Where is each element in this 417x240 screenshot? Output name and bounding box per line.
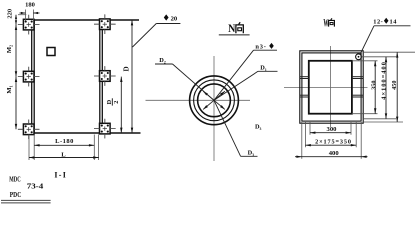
- svg-text:MDC: MDC: [9, 175, 20, 184]
- dimension 450 right: [363, 52, 415, 122]
- svg-text:2×175=350: 2×175=350: [315, 138, 352, 145]
- dimension 2x175=350 bottom: [305, 122, 356, 147]
- inner circle D1: [198, 84, 231, 117]
- svg-text:M₂: M₂: [6, 45, 13, 53]
- svg-text:220: 220: [7, 9, 14, 19]
- dimension 220: [7, 9, 27, 25]
- svg-text:D₂: D₂: [159, 57, 166, 64]
- svg-text:12-: 12-: [373, 19, 383, 26]
- right view centerline horizontal: [284, 87, 368, 89]
- bolt flange square top-left: [18, 15, 40, 35]
- label D2 with leader: [155, 57, 214, 101]
- svg-text:N: N: [228, 21, 235, 35]
- svg-text:D: D: [123, 66, 131, 71]
- dimension D: [123, 20, 134, 133]
- svg-text:180: 180: [25, 1, 35, 8]
- callout 12-phi14 with leader: [360, 18, 411, 55]
- svg-text:300: 300: [327, 126, 338, 133]
- svg-text:D₃: D₃: [255, 123, 262, 130]
- svg-text:D₁: D₁: [260, 64, 267, 71]
- svg-text:2: 2: [113, 101, 120, 104]
- svg-text:350: 350: [370, 80, 377, 89]
- svg-text:M₁: M₁: [6, 85, 13, 93]
- outer circle D3: [190, 76, 239, 125]
- dimension 4x100=400 right: [362, 57, 397, 119]
- bolt flange square bottom-left: [18, 120, 40, 140]
- bolt flange square mid-right: [94, 66, 116, 86]
- bolt flange square mid-left: [18, 67, 40, 87]
- circle centerline horizontal: [146, 99, 251, 101]
- label n3-phi with leader: [214, 43, 277, 100]
- svg-text:14: 14: [390, 19, 398, 26]
- svg-text:L-180: L-180: [55, 138, 74, 145]
- dimension 180: [20, 1, 40, 20]
- bolt flange square top-right: [94, 14, 116, 34]
- svg-text:n3-: n3-: [255, 43, 266, 50]
- dimension 400 bottom: [295, 122, 368, 159]
- dimension 350 right: [352, 61, 378, 114]
- dimension D/2: [106, 77, 123, 133]
- circle centerline vertical: [213, 56, 215, 161]
- svg-text:I-I: I-I: [54, 171, 67, 180]
- svg-text:400: 400: [329, 150, 340, 157]
- svg-text:D₃: D₃: [248, 149, 255, 156]
- dimension L: [29, 151, 99, 158]
- stiffener tabs on flange sides: [300, 77, 363, 97]
- right view centerline vertical: [330, 46, 332, 127]
- svg-text:D: D: [106, 99, 113, 104]
- dimension L-180: [29, 135, 99, 161]
- callout phi20: [133, 14, 181, 47]
- dimension M1: [6, 77, 17, 130]
- outer flange square double outline: [300, 51, 363, 123]
- svg-text:PDC: PDC: [10, 190, 21, 199]
- dimension M2: [6, 25, 17, 77]
- svg-text:W: W: [323, 17, 328, 29]
- bolt flange square bottom-right: [94, 119, 116, 139]
- svg-text:450: 450: [391, 80, 398, 89]
- bolt hole circle top-right: [356, 54, 362, 60]
- dimension 300 bottom: [310, 122, 351, 135]
- left view duct body outline: [24, 20, 141, 133]
- svg-text:73-4: 73-4: [27, 182, 44, 191]
- flow arrows inside circle: [203, 91, 225, 109]
- inner duct square outline: [309, 61, 352, 114]
- inspection port small square: [47, 48, 55, 56]
- middle circle D2: [194, 80, 235, 121]
- label D3 bottom with leader: [214, 100, 258, 156]
- svg-text:20: 20: [171, 15, 178, 22]
- svg-text:4×100=400: 4×100=400: [380, 61, 387, 100]
- title underline double rule: [1, 199, 51, 201]
- label D1 with leader: [214, 64, 278, 100]
